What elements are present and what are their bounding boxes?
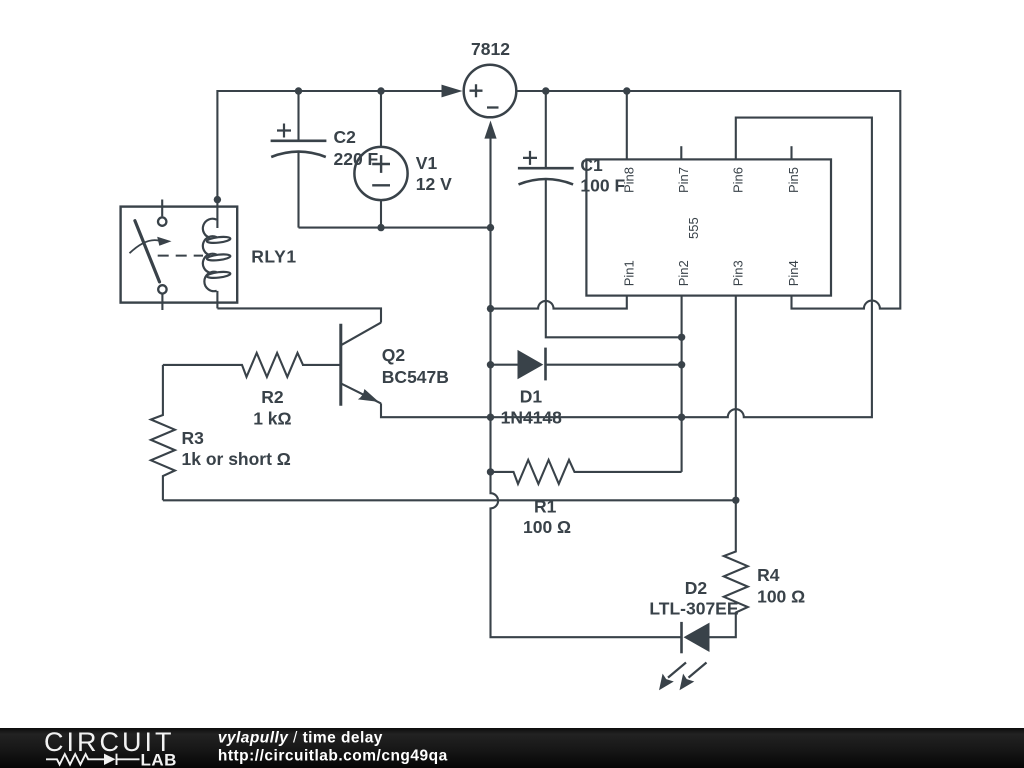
svg-text:LAB: LAB (141, 750, 177, 768)
V1 plus sign (372, 155, 390, 173)
junction R1 left (487, 468, 494, 475)
relay switch blade (135, 221, 160, 282)
svg-text:Q2: Q2 (382, 345, 406, 365)
resistor R3 (151, 365, 175, 500)
regulator plus sign (470, 84, 483, 97)
relay switch top stub (161, 200, 163, 217)
junction Pin8 top rail (623, 87, 630, 94)
svg-text:Pin7: Pin7 (676, 167, 691, 193)
relay RLY1 box (121, 207, 238, 303)
inductor coil of relay (203, 219, 231, 291)
svg-text:100 Ω: 100 Ω (757, 587, 805, 607)
svg-text:Pin5: Pin5 (786, 167, 801, 193)
LED emission arrow 1 (668, 663, 686, 678)
relay coil top lead (216, 200, 218, 228)
wire Pin8 riser (626, 91, 628, 159)
svg-text:D1: D1 (520, 387, 543, 407)
svg-text:Pin6: Pin6 (730, 167, 745, 193)
resistor R2 (163, 353, 303, 377)
svg-text:100 F: 100 F (580, 176, 625, 196)
svg-text:V1: V1 (416, 153, 438, 173)
wire Pin1 to left rail with hop (491, 296, 627, 309)
svg-text:7812: 7812 (471, 39, 510, 59)
regulator minus sign (487, 106, 499, 108)
wire R3 bottom rail to Pin3/R4 (163, 499, 736, 501)
junction V1 top rail (377, 87, 384, 94)
junction C1 bottom / Pin2 (678, 334, 685, 341)
relay coil bottom lead (216, 291, 218, 309)
wire top rail left (217, 91, 441, 200)
resistor R1 (491, 460, 682, 484)
svg-text:Pin1: Pin1 (621, 260, 636, 286)
svg-text:R1: R1 (534, 497, 557, 517)
wire Pin2 vertical (681, 296, 683, 472)
CircuitLab logo resistor-diode glyph (46, 754, 140, 765)
svg-text:12 V: 12 V (416, 174, 452, 194)
svg-text:C2: C2 (334, 127, 357, 147)
junction node Pin1 rail (487, 305, 494, 312)
relay switch top contact (158, 217, 166, 225)
svg-text:220 F: 220 F (334, 149, 379, 169)
svg-text:RLY1: RLY1 (251, 247, 297, 267)
junction regulator lead / bottom rail (487, 224, 494, 231)
svg-text:Pin4: Pin4 (786, 260, 801, 286)
Q2 collector diagonal (342, 323, 381, 345)
svg-text:1k or short Ω: 1k or short Ω (182, 449, 291, 469)
relay actuation arc arrow (130, 240, 160, 253)
transistor Q2 (339, 324, 342, 406)
junction C2 top rail (295, 87, 302, 94)
junction D1 anode (487, 361, 494, 368)
svg-text:Pin3: Pin3 (730, 260, 745, 286)
wire Pin5 stub (790, 146, 792, 159)
capacitor C2 bottom lead (297, 151, 299, 228)
wire relay to Q2 collector (217, 308, 381, 322)
wire Pin7 stub (680, 146, 682, 159)
wire Pin6 threshold net with hops (381, 118, 872, 418)
LED emission arrow 2 (689, 663, 707, 678)
V1 minus sign (372, 184, 390, 186)
capacitor C1 bottom lead (546, 178, 682, 337)
diode D1 (491, 364, 518, 366)
svg-text:R3: R3 (182, 428, 205, 448)
IC U1 555 box (586, 159, 831, 295)
junction V1 bottom rail (377, 224, 384, 231)
voltage source V1 circle (354, 147, 407, 200)
junction emitter net left (487, 414, 494, 421)
svg-text:R4: R4 (757, 565, 780, 585)
svg-text:Pin2: Pin2 (676, 260, 691, 286)
junction Pin3 / R4 top (732, 497, 739, 504)
capacitor C1 plates (518, 168, 574, 184)
relay dashed link (158, 255, 203, 257)
svg-text:vylapully / time delay: vylapully / time delay (218, 730, 383, 747)
resistor R4 (710, 500, 748, 637)
Q2 base lead (302, 364, 340, 366)
svg-text:C1: C1 (580, 155, 603, 175)
svg-text:1 kΩ: 1 kΩ (253, 409, 291, 429)
wire regulator bottom lead (491, 131, 682, 637)
junction D1 cathode / Pin2 (678, 361, 685, 368)
capacitor C2 top lead (297, 91, 299, 141)
svg-text:BC547B: BC547B (382, 367, 449, 387)
arrow up into regulator bottom (484, 121, 496, 139)
op-amp U1 regulator 7812 circle (464, 65, 517, 118)
junction C1 top rail (542, 87, 549, 94)
LED D2 (684, 623, 710, 652)
wire bottom rail of source section (299, 227, 491, 229)
wire top rail right (516, 91, 900, 309)
wire Pin3 vertical (735, 296, 737, 501)
C1 plus sign (523, 151, 537, 165)
relay switch bottom stub (161, 295, 163, 311)
capacitor C2 plates (271, 141, 327, 157)
svg-text:555: 555 (686, 217, 701, 239)
svg-text:1N4148: 1N4148 (501, 408, 563, 428)
C2 plus sign (277, 124, 291, 138)
capacitor C1 top lead (545, 91, 547, 168)
wire arrow into regulator (442, 85, 463, 98)
junction trigger net / Pin2 (678, 414, 685, 421)
relay switch bottom contact (158, 285, 166, 293)
svg-text:http://circuitlab.com/cng49qa: http://circuitlab.com/cng49qa (218, 747, 448, 764)
svg-text:LTL-307EE: LTL-307EE (649, 599, 738, 619)
V1 bottom lead (380, 200, 382, 228)
V1 top lead (380, 91, 382, 147)
svg-text:100 Ω: 100 Ω (523, 517, 571, 537)
junction relay coil top (214, 196, 221, 203)
Q2 emitter arrowhead (358, 389, 379, 402)
svg-text:R2: R2 (261, 387, 284, 407)
Q2 emitter diagonal (342, 384, 381, 404)
svg-text:D2: D2 (685, 578, 708, 598)
